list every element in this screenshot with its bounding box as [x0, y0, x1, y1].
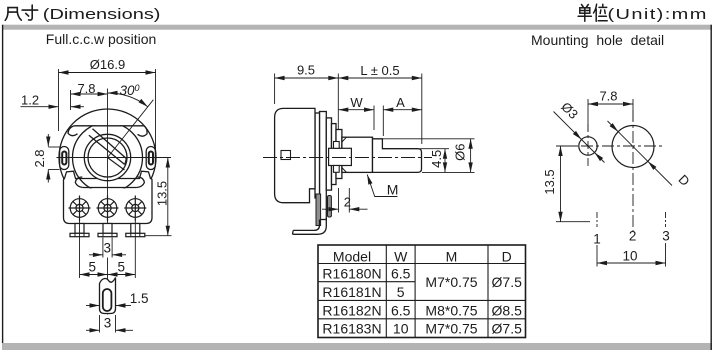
bushing plate 2 [332, 124, 337, 185]
threaded bushing M [342, 137, 373, 172]
hub cross [329, 148, 352, 165]
dim 9.5 line [275, 77, 339, 79]
bent leg foot outer [293, 218, 327, 234]
svg-text:D: D [502, 248, 512, 264]
dim 2 extension lines [338, 188, 340, 213]
dim W line [338, 109, 374, 111]
dim W extension line [373, 106, 375, 131]
dim Ø16.9 extension lines [58, 69, 60, 131]
terminal tick 1 [596, 212, 598, 227]
svg-text:3: 3 [662, 229, 670, 244]
cover plate [315, 113, 320, 198]
bushing plate 3 [336, 130, 342, 179]
svg-text:M7*0.75: M7*0.75 [425, 321, 477, 337]
svg-text:A: A [396, 95, 405, 110]
shaft slot [93, 129, 127, 159]
svg-text:Ø7.5: Ø7.5 [492, 274, 523, 290]
table outer border [318, 245, 526, 338]
title (Unit):mm [608, 6, 708, 23]
mounting big hole D [612, 126, 654, 168]
leader M [367, 175, 397, 197]
vertical centerline big hole [632, 110, 634, 231]
ring top chord [75, 125, 145, 127]
dim Ø16.9 line [59, 72, 156, 74]
side body left tab [281, 151, 291, 160]
notch lower-right [137, 177, 145, 188]
svg-text:M8*0.75: M8*0.75 [425, 302, 477, 318]
svg-text:R16180N: R16180N [322, 265, 381, 281]
pin 3 [131, 224, 140, 234]
frame top gray bar [2, 25, 712, 30]
svg-text:2: 2 [629, 229, 637, 244]
ring bottom chord [83, 187, 137, 189]
dim 2.8 extension lines [48, 146, 59, 148]
bracket plate (long) [320, 112, 327, 220]
side body [275, 108, 315, 202]
thread chamfer lines [342, 137, 347, 142]
left ear [60, 147, 69, 170]
svg-text:3: 3 [104, 316, 112, 331]
dim 5,5 line [80, 274, 108, 276]
dim 30 arc [108, 93, 148, 107]
dim L extension line [421, 74, 423, 145]
lug outline [100, 278, 116, 314]
terminal rivet 3 [124, 196, 146, 222]
terminals (rivet circles) [69, 196, 147, 222]
svg-text:R16181N: R16181N [322, 284, 381, 300]
svg-text:13.5: 13.5 [155, 181, 170, 206]
vertical centerline [107, 89, 109, 238]
title 尺寸 (hand-drawn CJK strokes) [5, 5, 37, 20]
terminal block [64, 171, 153, 223]
shaft with flat [373, 139, 422, 173]
svg-text:10: 10 [393, 321, 409, 337]
vertical centerline small hole [587, 124, 589, 167]
notch lower-left [75, 177, 83, 188]
svg-text:Ø16.9: Ø16.9 [90, 57, 125, 72]
dim 13.5 extension lines [556, 145, 575, 147]
svg-text:M7*0.75: M7*0.75 [425, 274, 477, 290]
frame bottom gray bar [2, 343, 712, 350]
pin 2 [103, 224, 112, 234]
notch upper-right [138, 126, 148, 136]
dim Ø6 extension lines [383, 138, 475, 140]
table row lines [318, 263, 526, 265]
svg-text:5: 5 [89, 260, 97, 275]
pointer line 30deg [108, 100, 154, 158]
svg-text:(Unit):mm: (Unit):mm [608, 6, 708, 23]
dim 7.8 line [71, 93, 108, 95]
dim 3 (lug) arrows [86, 329, 100, 331]
bushing plate 1 [326, 118, 331, 190]
leader Ø3 [554, 112, 582, 140]
dim A extension line [382, 106, 384, 137]
svg-text:3: 3 [104, 240, 112, 255]
horizontal centerline [57, 157, 172, 159]
svg-text:1.2: 1.2 [21, 93, 39, 108]
svg-text:L ± 0.5: L ± 0.5 [360, 63, 399, 78]
svg-text:2: 2 [344, 195, 351, 210]
frame left border [2, 25, 4, 343]
svg-text:9.5: 9.5 [297, 62, 315, 77]
svg-text:7.8: 7.8 [599, 89, 617, 104]
dim 9.5 extension lines [274, 74, 276, 105]
svg-text:W: W [350, 95, 363, 110]
svg-text:5: 5 [397, 284, 405, 300]
pin 1 [75, 224, 84, 234]
terminal rivet 2 [97, 196, 119, 222]
svg-text:6.5: 6.5 [391, 302, 411, 318]
dim A line [383, 109, 422, 111]
dim 10 line [597, 262, 666, 264]
svg-text:(Dimensions): (Dimensions) [43, 6, 161, 23]
front crosshair centerlines [57, 89, 172, 315]
svg-text:6.5: 6.5 [391, 265, 411, 281]
right ear [146, 147, 155, 170]
inner ring plate [73, 123, 143, 193]
mounting small hole Ø3 [579, 137, 597, 155]
dim 4.5 line [444, 149, 446, 173]
dim 4.5 extension line [420, 148, 449, 150]
dim 3 (pin) extension lines [102, 238, 104, 258]
pin centerlines [80, 221, 136, 278]
front body circle [59, 109, 156, 206]
svg-text:M: M [446, 248, 458, 264]
dim 13.5 line [560, 146, 562, 222]
locating lug (gray) [328, 196, 332, 218]
bent leg foot inner [293, 220, 319, 231]
svg-text:R16182N: R16182N [322, 302, 381, 318]
svg-text:Ø8.5: Ø8.5 [492, 302, 523, 318]
dim 2.8 arrows [47, 134, 49, 147]
horizontal centerline through holes [560, 145, 664, 147]
table column lines [385, 245, 387, 338]
svg-text:4.5: 4.5 [429, 150, 444, 168]
svg-text:7.8: 7.8 [77, 81, 95, 96]
svg-text:10: 10 [622, 249, 637, 264]
shaft outer circle [84, 134, 130, 180]
svg-text:2.8: 2.8 [32, 149, 47, 167]
dim 1.2 arrows [21, 106, 59, 108]
svg-text:1: 1 [593, 232, 601, 247]
svg-text:W: W [394, 248, 408, 264]
svg-text:13.5: 13.5 [542, 169, 557, 194]
svg-text:Ø7.5: Ø7.5 [492, 321, 523, 337]
side view centerline [263, 157, 432, 159]
dim Ø6 line [470, 139, 472, 173]
dim 7.8 extension lines [587, 99, 589, 132]
svg-text:Model: Model [333, 248, 371, 264]
terminal rivet 1 [69, 196, 91, 222]
svg-text:Mounting hole detail: Mounting hole detail [531, 32, 664, 48]
notch upper-left [68, 126, 78, 136]
foot end cap [292, 230, 295, 234]
dim 13.5 line [167, 158, 169, 236]
dim 10 extension lines [596, 245, 598, 267]
title (Dimensions) [43, 6, 161, 23]
pins under block [70, 224, 145, 237]
svg-text:M: M [387, 182, 399, 198]
terminal lug detail [100, 278, 116, 314]
shaft inner circle [88, 138, 127, 177]
frame right border [710, 25, 712, 350]
svg-text:Full.c.c.w position: Full.c.c.w position [46, 31, 156, 47]
dim 3 (pin) arrows [89, 254, 103, 256]
svg-text:1.5: 1.5 [130, 291, 149, 306]
title 单位 (hand-drawn CJK strokes) [578, 4, 607, 21]
dim 1.5 arrows [86, 305, 100, 307]
dim 3 (lug) extension lines [99, 315, 101, 333]
pin edges through flanges [74, 233, 76, 236]
svg-text:R16183N: R16183N [322, 321, 381, 337]
dim 2 arrows [322, 208, 339, 210]
terminal tick 3 [665, 212, 667, 227]
lug hole [103, 289, 112, 311]
dim 7.8 line [588, 103, 633, 105]
solder lug strip (gray) [316, 194, 321, 226]
dim 13.5 lower extension [145, 235, 172, 237]
dim 7.8 extension line [70, 90, 72, 110]
dim L line [338, 77, 422, 79]
svg-text:Ø6: Ø6 [453, 144, 468, 161]
svg-text:5: 5 [118, 260, 126, 275]
leader D [608, 121, 619, 132]
